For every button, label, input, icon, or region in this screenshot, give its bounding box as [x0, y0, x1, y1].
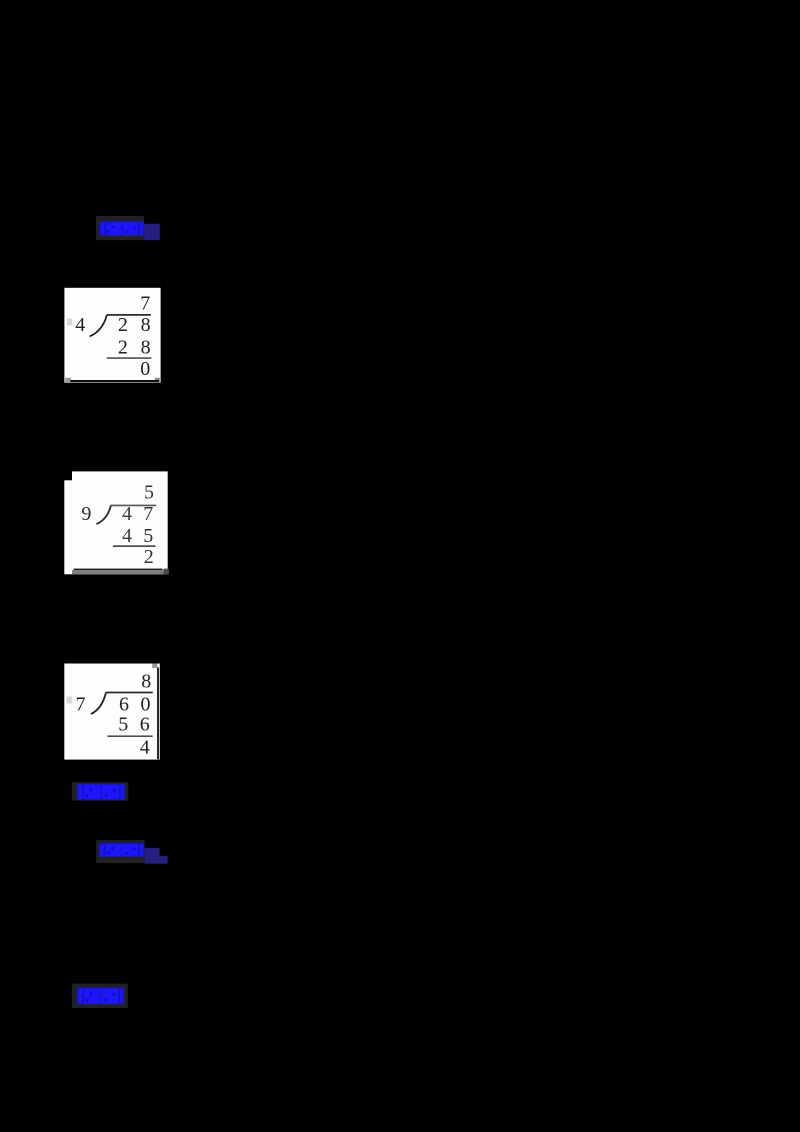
svg-text:6: 6 [119, 693, 129, 715]
label tag 1 navy selection box [144, 224, 160, 240]
division 1 bottom edge nubs [65, 378, 71, 382]
label tag 3 navy selection box lower [145, 856, 168, 864]
svg-text:7: 7 [140, 293, 150, 315]
division 2 bottom thin dark line [74, 569, 163, 571]
division 2 bottom gray bar [72, 570, 169, 574]
svg-text:8: 8 [141, 670, 151, 692]
svg-text:5: 5 [143, 525, 153, 547]
svg-text:2: 2 [144, 546, 154, 568]
svg-text:2: 2 [118, 314, 128, 336]
division image 2 white left strip [64, 480, 72, 574]
label tag 4 blue text blob [78, 988, 124, 1004]
division 2 rule line [113, 545, 156, 547]
division 3 rule line [107, 735, 152, 737]
svg-text:8: 8 [141, 337, 151, 359]
svg-text:4: 4 [122, 503, 132, 525]
division 3 faint left mark [67, 697, 73, 704]
division 2 vinculum [111, 504, 156, 506]
svg-text:4: 4 [140, 737, 150, 759]
division image 1 white background [64, 288, 160, 383]
division 1 bottom thick line [70, 380, 159, 382]
division 3 vinculum [106, 692, 153, 694]
label tag 3 dark background box [96, 840, 144, 863]
division 3 top-right gray square [152, 664, 157, 669]
division image 3 white background [64, 664, 160, 760]
svg-text:4: 4 [75, 314, 85, 336]
label tag 1 dark background box [96, 216, 144, 240]
label tag 2 blue text blob [78, 784, 125, 800]
division 1 bracket curve [90, 315, 107, 337]
division image 2 white background main [72, 471, 168, 574]
svg-text:6: 6 [140, 714, 150, 736]
division 1 rule line [107, 357, 152, 359]
svg-text:0: 0 [141, 693, 151, 715]
svg-text:0: 0 [140, 358, 150, 380]
label tag 4 dark background box [72, 984, 128, 1008]
svg-text:5: 5 [118, 714, 128, 736]
svg-text:9: 9 [81, 503, 91, 525]
svg-text:5: 5 [144, 482, 154, 504]
svg-text:7: 7 [76, 693, 86, 715]
svg-text:7: 7 [143, 503, 153, 525]
label tag 3 blue text blob [100, 843, 144, 857]
division 3 bracket curve [91, 693, 106, 715]
division 2 bottom bar right dark cap [164, 569, 169, 575]
division 1 faint left mark [67, 319, 72, 326]
label tag 1 blue text blob [100, 222, 144, 236]
label tag 2 dark background box [72, 782, 128, 800]
label tag 3 navy selection box upper [145, 848, 160, 857]
division 3 right vertical line [157, 668, 159, 760]
svg-text:2: 2 [118, 337, 128, 359]
division 2 bracket curve [96, 505, 111, 524]
svg-text:8: 8 [141, 314, 151, 336]
division 1 vinculum [107, 314, 151, 316]
svg-text:4: 4 [122, 525, 132, 547]
